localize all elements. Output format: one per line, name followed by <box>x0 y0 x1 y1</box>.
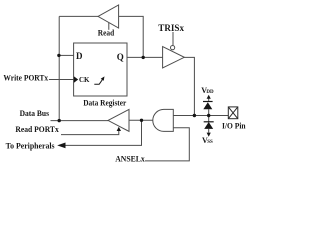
svg-text:To Peripherals: To Peripherals <box>6 142 55 151</box>
svg-text:Q: Q <box>117 52 124 62</box>
svg-text:DD: DD <box>206 90 214 95</box>
svg-text:D: D <box>76 51 83 61</box>
svg-text:Read PORTx: Read PORTx <box>15 125 58 134</box>
wire ANSELx to AND input <box>145 128 189 161</box>
buffer U3 (Read PORTx, points left) <box>108 109 129 131</box>
diode D1 to VDD <box>203 101 213 103</box>
wire VSS branch <box>208 116 210 133</box>
node Q junction <box>142 56 145 59</box>
wire to peripherals <box>65 120 142 145</box>
enable arrowhead on read PORTx buffer <box>117 127 121 131</box>
svg-text:Read: Read <box>98 29 115 38</box>
node D input junction <box>57 54 60 57</box>
svg-text:I/O Pin: I/O Pin <box>222 122 246 131</box>
wire D input <box>59 54 74 56</box>
svg-text:Data Register: Data Register <box>83 98 127 107</box>
wire Q output <box>127 56 163 58</box>
AND gate U4 (points left) <box>153 109 173 131</box>
wire write PORTx to CK <box>49 79 74 81</box>
node AND output junction <box>140 119 143 122</box>
bubble on TRIS buffer <box>171 46 175 50</box>
wire read buffer input to Q <box>119 16 144 57</box>
node data bus junction <box>58 119 61 122</box>
clock edge symbol <box>94 79 102 84</box>
svg-text:Data Bus: Data Bus <box>20 109 49 118</box>
wire TRIS output to pin <box>184 57 194 115</box>
buffer U1 (Read, points left) <box>98 5 119 28</box>
svg-text:CK: CK <box>79 75 90 84</box>
wire read PORTx enable <box>61 130 119 135</box>
svg-text:ANSELx: ANSELx <box>115 155 145 164</box>
wire top read output <box>59 15 98 17</box>
arrow to VDD <box>207 95 211 99</box>
I/O pin pad <box>228 107 238 119</box>
buffer U2 (TRIS output driver, points right) <box>163 47 185 68</box>
svg-text:SS: SS <box>207 140 213 145</box>
wire AND output to read PORTx buffer <box>129 119 153 121</box>
clock triangle at CK pin <box>74 76 78 83</box>
wire read enable stub <box>108 23 110 30</box>
arrow to VSS <box>207 133 211 137</box>
wire pin line <box>173 115 228 117</box>
wire data bus to buffer tip <box>51 120 109 122</box>
wire data bus vertical <box>58 16 60 120</box>
wire VDD branch <box>208 96 210 116</box>
svg-text:Write PORTx: Write PORTx <box>3 74 48 83</box>
node pin diode junction <box>207 114 210 117</box>
wire TRISx control <box>172 32 174 45</box>
register (Data Register box) <box>74 43 127 96</box>
svg-text:TRISx: TRISx <box>158 23 184 33</box>
to peripherals arrowhead <box>57 143 65 149</box>
node pin TRIS junction <box>193 114 196 117</box>
diode D2 to VSS <box>204 121 214 123</box>
